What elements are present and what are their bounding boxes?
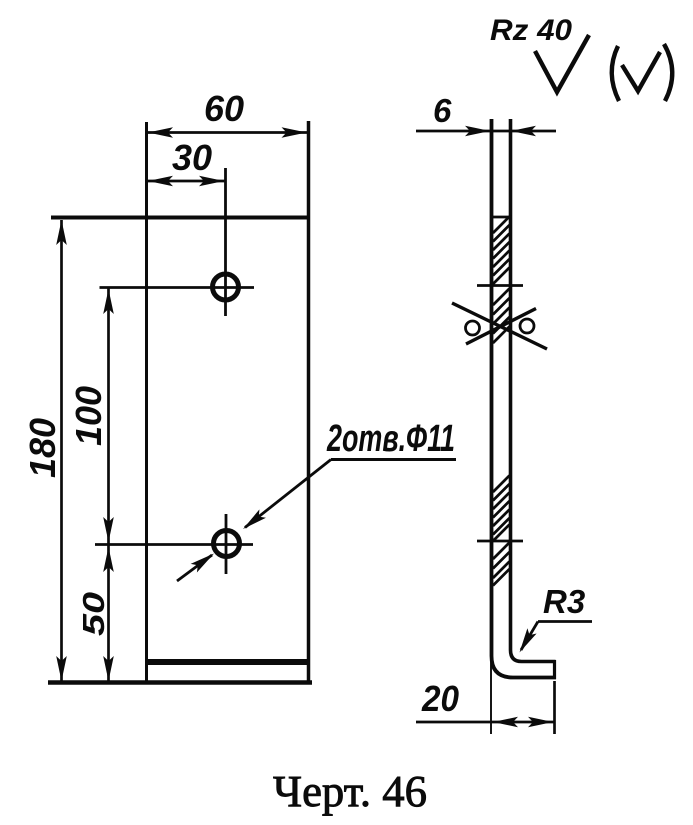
dimension 30 xyxy=(146,137,226,186)
hole 1 vertical centerline xyxy=(224,168,227,316)
svg-text:Rz 40: Rz 40 xyxy=(490,14,572,47)
svg-text:20: 20 xyxy=(421,678,459,719)
weld symbol left circle xyxy=(466,321,480,335)
hole 1 horizontal centerline xyxy=(100,286,255,289)
hatching segment A xyxy=(493,217,510,285)
plate front view: bottom edge xyxy=(48,680,312,684)
plate front view: left edge xyxy=(145,122,148,681)
roughness checkmark xyxy=(535,35,589,92)
svg-text:50: 50 xyxy=(76,592,111,636)
svg-text:180: 180 xyxy=(22,418,63,478)
dimension 60 xyxy=(146,88,308,138)
dimension 20 xyxy=(416,655,555,734)
leader label 2otv.F11 xyxy=(177,418,456,581)
side view: left outline with bottom bend xyxy=(492,119,557,678)
parenthesis left xyxy=(612,46,619,101)
weld symbol right circle xyxy=(520,319,534,333)
svg-text:R3: R3 xyxy=(543,583,585,620)
hole 2 vertical centerline xyxy=(225,514,228,574)
hatching segment D xyxy=(493,543,510,586)
svg-text:Черт. 46: Черт. 46 xyxy=(273,767,427,816)
hatching segment B xyxy=(493,289,510,344)
hole 2 circle xyxy=(214,531,240,557)
radius label R3 xyxy=(515,583,592,655)
plate front view: right edge xyxy=(307,121,311,683)
svg-text:30: 30 xyxy=(172,137,212,178)
weld symbol diagonal B xyxy=(466,309,536,345)
plate front view: flange fold line xyxy=(147,659,310,665)
svg-text:60: 60 xyxy=(204,88,244,129)
side view: hole 2 centerline xyxy=(477,540,523,543)
side view: hole 1 centerline xyxy=(477,284,523,287)
side view: flange right end xyxy=(553,660,556,679)
side view: right outline with R3 bend xyxy=(511,119,556,662)
plate front view: top edge xyxy=(51,216,310,220)
svg-text:2отв.Ф11: 2отв.Ф11 xyxy=(326,418,455,460)
dimension 100 xyxy=(68,289,114,682)
extension line left xyxy=(490,655,492,734)
hole 1 circle xyxy=(213,274,239,300)
parenthesis right xyxy=(664,44,672,101)
dimension 50 xyxy=(76,547,114,681)
hatching segment C xyxy=(493,476,510,542)
svg-text:100: 100 xyxy=(68,386,109,446)
dimension 180 xyxy=(22,220,67,681)
dimension 6 xyxy=(416,92,556,136)
side view: top cap xyxy=(490,216,512,219)
hole 2 horizontal centerline xyxy=(95,543,253,546)
surface finish Rz 40 xyxy=(490,14,672,101)
small checkmark xyxy=(622,52,660,91)
svg-text:6: 6 xyxy=(433,92,452,129)
extension line right xyxy=(553,681,556,734)
weld symbol diagonal A xyxy=(452,303,547,349)
